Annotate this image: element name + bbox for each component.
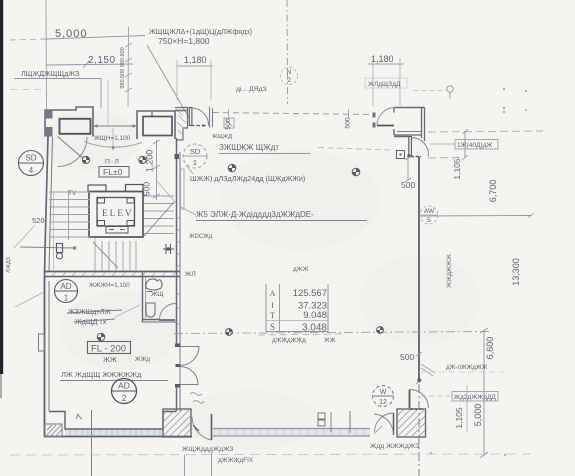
faint dots top right — [503, 88, 505, 90]
small shaft box right of entrance — [224, 118, 234, 128]
svg-text:дЖЖЖдFIX: дЖЖЖдFIX — [218, 457, 254, 464]
svg-text:ЗЖЩЖЖ ЩЖдт: ЗЖЩЖЖ ЩЖдт — [219, 143, 279, 152]
svg-text:Ждд ЖЖЖдЖЗ: Ждд ЖЖЖдЖЗ — [370, 443, 419, 450]
svg-text:ЖЖ: ЖЖ — [103, 355, 117, 364]
storefront band left hatch ticks — [70, 430, 160, 436]
svg-text:1Ж(40Д)дЖ: 1Ж(40Д)дЖ — [457, 142, 492, 149]
entrance door swing — [192, 108, 209, 126]
right wall lower door swing — [410, 389, 429, 408]
horizontal dim line y216 — [419, 215, 531, 218]
right wall lower door sill — [410, 408, 424, 410]
svg-text:500: 500 — [345, 117, 352, 129]
svg-text:9.048: 9.048 — [303, 310, 327, 321]
bottom jamb lines — [184, 455, 186, 476]
main right wall — [418, 157, 420, 380]
right door sill — [408, 155, 411, 158]
ELEV shaft inner — [97, 198, 135, 227]
svg-text:дЖЖдЖЖд: дЖЖдЖЖд — [272, 337, 306, 344]
wall bay to door — [394, 136, 409, 138]
table frame — [266, 284, 328, 332]
svg-text:ЛЩЖДЖЩЩдЖЗ: ЛЩЖДЖЩЩдЖЗ — [21, 69, 79, 78]
AD1 bubble — [55, 280, 78, 303]
right door upper leaf — [409, 137, 412, 157]
SE pier hatched — [397, 409, 426, 437]
svg-text:520: 520 — [32, 216, 45, 225]
dim 500 right top — [407, 158, 409, 180]
right wall centerline extension down — [418, 384, 420, 476]
survey mark hall right — [139, 156, 146, 163]
svg-text:3.048: 3.048 — [302, 323, 327, 334]
toilet door leaf — [159, 319, 175, 321]
svg-text:I: I — [271, 301, 274, 310]
survey mark main room right — [352, 168, 360, 176]
svg-text:12: 12 — [379, 399, 387, 406]
wall mid fixture — [163, 244, 174, 254]
svg-text:ді... ДЯдЗ: ді... ДЯдЗ — [236, 85, 267, 93]
SE vestibule post line — [349, 411, 351, 433]
bottom door at pier — [211, 414, 213, 440]
balloon small circle with stem — [447, 86, 453, 92]
svg-text:500: 500 — [142, 182, 152, 196]
main wall vertical lower — [176, 386, 178, 411]
svg-text:ЖЩ: ЖЩ — [151, 291, 164, 298]
grid extension line x46 — [45, 0, 48, 110]
window bay NW jamb blobs — [45, 110, 53, 119]
SD1 leader — [186, 165, 193, 174]
svg-text:ЖЛ: ЖЛ — [185, 271, 196, 278]
door D2 swing — [180, 367, 198, 385]
stair treads left flight — [49, 192, 90, 237]
bay NE door jamb blobs — [373, 113, 376, 118]
svg-text:ЖЖЖH=1,100: ЖЖЖH=1,100 — [89, 282, 130, 289]
entrance east jamb — [210, 107, 213, 128]
paper mottling — [40, 110, 480, 450]
canopy dashed line — [213, 113, 374, 115]
svg-text:T: T — [270, 311, 275, 320]
svg-text:Жд2дЖЖдДД: Жд2дЖЖдДД — [454, 394, 496, 401]
door fixture on left wall — [57, 244, 63, 253]
svg-text:500: 500 — [225, 118, 232, 130]
svg-text:5,000: 5,000 — [473, 404, 483, 427]
520 leader — [14, 225, 35, 248]
svg-text:2: 2 — [122, 393, 127, 403]
ELEV rail tab top-left — [88, 185, 106, 192]
small square with dot — [397, 151, 405, 159]
svg-text:500: 500 — [400, 352, 414, 362]
dim 1105 vertical line — [464, 131, 466, 158]
survey mark main room left — [228, 164, 236, 172]
storefront band ticks — [220, 429, 364, 436]
svg-text:125.567: 125.567 — [293, 288, 327, 299]
bay NE door swing — [377, 108, 395, 126]
survey mark on dashed line right — [377, 327, 384, 334]
window bay NE bottom double edge — [394, 134, 422, 136]
stair treads bottom flight — [95, 238, 136, 272]
ELEV shaft outer — [89, 192, 143, 238]
window NW inner sash — [60, 119, 91, 134]
svg-text:6,700: 6,700 — [488, 180, 498, 203]
wall junction node — [175, 154, 180, 159]
wall hatch ticks — [177, 216, 181, 326]
entrance top wall from bay2 — [175, 110, 188, 112]
svg-text:ЖЖ: ЖЖ — [324, 337, 336, 344]
svg-text:Ж5 ЭЛЖ-Д-Ждідддд3дЖЖдDE-: Ж5 ЭЛЖ-Д-Ждідддд3дЖЖдDE- — [196, 210, 314, 219]
svg-text:1: 1 — [193, 158, 197, 167]
svg-text:ЖЩЩЖЛΔ+(1дЩ)Ц(дЛЖфядз): ЖЩЩЖЛΔ+(1дЩ)Ц(дЛЖфядз) — [149, 27, 252, 36]
svg-text:13,300: 13,300 — [511, 258, 521, 286]
svg-text:1,105: 1,105 — [454, 407, 464, 429]
table underline dashed — [258, 334, 345, 335]
svg-text:750×H=1,800: 750×H=1,800 — [158, 36, 210, 46]
svg-text:S: S — [270, 322, 275, 332]
bottom wall hatch — [52, 272, 176, 276]
entrance sill marks — [191, 125, 206, 127]
stair block bottom wall — [44, 271, 180, 273]
dashed line y333 — [174, 332, 490, 334]
AW12 bubble dashed — [373, 386, 394, 407]
pier SW of main room hatched — [163, 409, 191, 437]
squiggle marks near doors — [190, 393, 204, 404]
svg-text:ЛЖ ЖдЩЩ ЖЖЖЖЖд: ЛЖ ЖдЩЩ ЖЖЖЖЖд — [61, 370, 142, 379]
ELEV pit box bottom — [106, 227, 128, 234]
dim arrows near 500 — [421, 364, 435, 376]
svg-text:5: 5 — [427, 217, 431, 224]
svg-text:AD: AD — [60, 282, 71, 291]
svg-text:A: A — [270, 289, 276, 298]
SD1 bubble dashed — [183, 144, 207, 168]
svg-text:ЖЖдЖЖЖ: ЖЖдЖЖЖ — [446, 254, 453, 288]
window N-center inner sash — [143, 117, 172, 136]
stair left flight rail line — [68, 190, 70, 240]
window bay N-center outline — [137, 111, 175, 139]
svg-text:2: 2 — [287, 77, 291, 84]
svg-text:дЖЖ: дЖЖ — [293, 266, 309, 273]
storage bottom inner step — [65, 430, 163, 437]
vertical dim chain x128 — [127, 27, 130, 107]
dim leader to corridor — [156, 180, 176, 203]
right vertical dim x484 — [483, 330, 485, 455]
wall cap nodes — [175, 344, 181, 348]
AW5 bubble dashed — [420, 206, 438, 224]
grid bubble N/2 top — [281, 68, 298, 85]
svg-text:ЖЛдЩЗдД: ЖЛдЩЗдД — [368, 81, 401, 88]
svg-text:ЖDСЖд: ЖDСЖд — [189, 234, 213, 240]
boxed note y396 — [452, 392, 498, 402]
SW corner pier hatched — [45, 424, 62, 437]
survey mark on dashed line left — [226, 329, 233, 336]
centerline x287 — [286, 0, 289, 104]
window bay NE top edge — [394, 107, 425, 109]
leader to toilet wall — [115, 305, 140, 317]
svg-text:FL±0: FL±0 — [103, 167, 123, 177]
stair treads right flight — [144, 196, 174, 234]
bay N-center notch — [151, 111, 153, 117]
SE double door arcs — [393, 413, 395, 435]
svg-text:ELEV: ELEV — [102, 209, 133, 219]
svg-text:ЖЩH=1,100: ЖЩH=1,100 — [94, 135, 131, 142]
washed box note under 1180 right — [365, 78, 407, 88]
leader from note to entrance door — [147, 45, 189, 118]
storage bottom outer line — [44, 436, 192, 438]
wall chase rect — [181, 169, 185, 209]
stair top opening handrail dim — [93, 125, 137, 127]
window bay NE right double edge — [421, 108, 423, 139]
svg-text:ЖЩЖдддЖдЖЗ: ЖЩЖдддЖдЖЗ — [182, 446, 233, 453]
svg-text:ШЖЖ) дЛЗдЛЖд24дд (ЩЖдЖЖи): ШЖЖ) дЛЗдЛЖд24дд (ЩЖдЖЖи) — [190, 174, 305, 183]
storage wall vent jog — [39, 334, 45, 351]
svg-text:W: W — [380, 389, 387, 396]
dashed leader to small box — [318, 148, 391, 151]
dim 5000 line — [10, 39, 46, 40]
svg-text:1,105: 1,105 — [452, 158, 462, 180]
svg-text:ЖЩЖД: ЖЩЖД — [212, 134, 232, 140]
svg-text:4: 4 — [29, 166, 34, 175]
svg-text:6,600: 6,600 — [485, 337, 495, 360]
SD4 bubble — [19, 151, 44, 176]
svg-text:AD: AD — [118, 381, 130, 391]
tiny mark near pier — [76, 414, 82, 419]
window bay NE left stubs — [393, 108, 395, 113]
WC tank — [146, 279, 162, 290]
FL+-0 box — [99, 167, 129, 178]
svg-text:1: 1 — [64, 294, 69, 303]
hall door arc at NW — [58, 137, 88, 167]
stair block left wall — [45, 136, 49, 277]
dim chain line x156 — [156, 140, 158, 200]
right door upper swing — [412, 138, 429, 157]
FL-200 box — [88, 342, 131, 354]
svg-text:1,180: 1,180 — [371, 54, 394, 64]
stair bottom flight break diagonal — [93, 242, 118, 268]
dim 2150 line — [46, 64, 133, 65]
WC flush handle — [147, 291, 153, 293]
entrance block hatch — [176, 109, 186, 135]
toilet left wall — [142, 272, 144, 322]
svg-text:ЖЖд: ЖЖд — [135, 356, 150, 363]
grid line below storage — [91, 410, 93, 476]
toilet bottom wall — [143, 319, 160, 321]
entrance west wall block — [175, 108, 188, 141]
survey mark storage — [97, 333, 105, 341]
AD2 bubble — [112, 379, 137, 404]
entrance door leaf — [189, 108, 192, 126]
right wall lower door leaf — [409, 390, 411, 409]
svg-text:2,150: 2,150 — [88, 55, 116, 66]
svg-text:ЛЖДЗ: ЛЖДЗ — [6, 256, 12, 272]
ELEV rail tab top-right — [126, 185, 144, 192]
leader to elevator note — [179, 206, 196, 215]
storefront band main room — [213, 429, 370, 436]
ELEV inner corner rails — [98, 198, 105, 203]
svg-text:FL - 200: FL - 200 — [91, 344, 126, 355]
AD1 leader — [15, 292, 44, 307]
svg-text:500: 500 — [401, 180, 415, 190]
main wall vertical upper — [176, 138, 178, 345]
storage left wall — [44, 277, 46, 437]
svg-text:SD: SD — [25, 154, 36, 163]
survey mark hall left — [82, 156, 89, 163]
scan edge black bar left — [0, 0, 3, 374]
bay NE door leaf — [377, 125, 394, 127]
svg-text:TV: TV — [68, 190, 77, 197]
svg-text:AW: AW — [424, 208, 435, 215]
svg-text:П-Л: П-Л — [105, 159, 120, 166]
steel door box note — [455, 140, 498, 150]
svg-text:N: N — [287, 69, 292, 76]
toilet door swing — [160, 304, 176, 320]
urinal — [146, 303, 155, 317]
stair arrow leader — [20, 247, 74, 248]
right wall lower door cap — [418, 379, 421, 383]
mullion symbol on band — [318, 413, 325, 419]
svg-text:980 600 980 600: 980 600 980 600 — [120, 47, 126, 88]
dim line y131 — [428, 131, 543, 132]
svg-text:1,180: 1,180 — [184, 55, 207, 65]
dim line y157 — [428, 157, 462, 160]
svg-text:SD: SD — [190, 147, 201, 156]
svg-text:5,000: 5,000 — [55, 28, 88, 40]
clearance curve — [84, 142, 142, 148]
svg-text:дЖ-лЖЖдЖЖ: дЖ-лЖЖдЖЖ — [446, 364, 488, 371]
faint bottom dim line y455 — [10, 454, 530, 455]
stair right flight break diagonal — [144, 202, 174, 236]
door D1 swing — [180, 347, 199, 366]
window bay NW outline — [45, 107, 93, 137]
